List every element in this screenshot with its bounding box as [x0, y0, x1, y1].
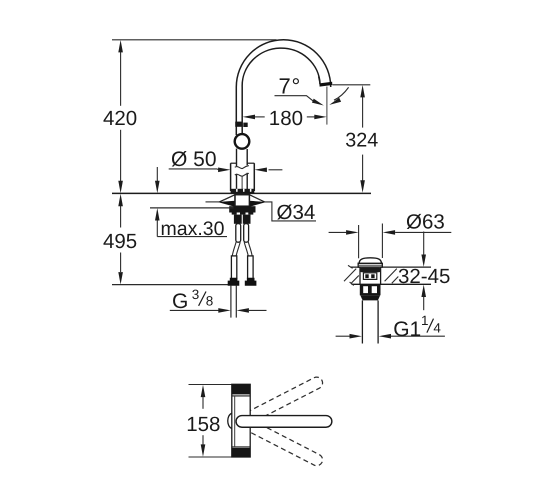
svg-text:Ø 50: Ø 50 [171, 148, 217, 171]
svg-text:4: 4 [433, 320, 441, 335]
svg-text:324: 324 [345, 130, 378, 152]
svg-text:495: 495 [103, 230, 137, 253]
svg-text:7°: 7° [279, 73, 302, 98]
svg-text:G1: G1 [393, 318, 421, 341]
svg-text:32-45: 32-45 [398, 265, 450, 288]
svg-text:max.30: max.30 [161, 218, 225, 240]
svg-text:420: 420 [103, 107, 137, 130]
svg-text:1: 1 [421, 313, 429, 328]
svg-text:180: 180 [269, 107, 303, 130]
svg-text:Ø34: Ø34 [277, 201, 316, 224]
svg-text:3: 3 [192, 287, 200, 302]
svg-text:158: 158 [186, 413, 220, 436]
svg-text:8: 8 [206, 294, 214, 309]
svg-text:G: G [172, 290, 188, 313]
svg-text:Ø63: Ø63 [406, 211, 445, 234]
